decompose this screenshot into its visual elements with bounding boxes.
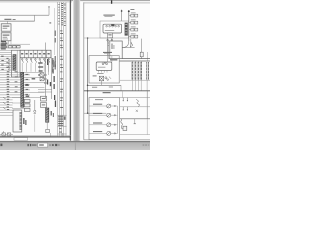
terminal block: [24, 99, 30, 102]
wire: [0, 84, 30, 86]
wire label: [7, 95, 10, 98]
wire: [0, 134, 13, 136]
wire: [0, 86, 45, 88]
wire: [89, 124, 107, 126]
label text: [55, 31, 56, 37]
component U1: [103, 24, 122, 33]
lamp: [107, 113, 111, 117]
wire: [0, 104, 13, 106]
wire: [57, 2, 59, 136]
switch: [40, 60, 41, 63]
table text: [60, 29, 62, 32]
wire: [108, 45, 112, 47]
wire: [120, 97, 150, 99]
relay K5: [40, 73, 44, 76]
wire: [0, 136, 71, 138]
label text: [47, 59, 48, 65]
table text: [64, 3, 66, 6]
contact: [8, 66, 10, 68]
table text: [58, 120, 63, 123]
bus wire: [84, 90, 150, 92]
wire: [5, 41, 7, 44]
contact: [26, 59, 28, 61]
table text: [60, 96, 63, 99]
toolbar edge: [0, 141, 150, 143]
label text: [32, 78, 36, 79]
toolbar band: [0, 142, 150, 150]
lamp box: [89, 56, 119, 83]
switch: [35, 60, 36, 63]
table text: [60, 55, 62, 58]
wire: [34, 115, 36, 132]
table text: [61, 4, 63, 7]
wire: [0, 109, 13, 111]
label text: [25, 85, 29, 86]
connector bar: [138, 62, 140, 80]
wire: [98, 70, 100, 72]
pane divider: [75, 142, 76, 150]
contact: [45, 82, 47, 84]
wire: [88, 84, 121, 86]
table text: [61, 17, 63, 20]
wire: [0, 101, 13, 103]
node: [109, 42, 110, 43]
wire: [12, 96, 30, 98]
wire label: [7, 75, 10, 78]
wire: [141, 39, 143, 53]
table text: [64, 7, 66, 10]
table text: [60, 106, 63, 109]
flex wire symbol: [136, 99, 140, 106]
lamp: [107, 123, 111, 127]
stub: [126, 107, 128, 110]
label text: [39, 53, 41, 54]
contact: [45, 78, 47, 80]
node mark: [111, 0, 113, 4]
label text: [50, 82, 51, 86]
wire: [58, 133, 67, 135]
label text: [93, 104, 102, 105]
bus wire: [122, 58, 150, 60]
fuse block: [9, 45, 12, 48]
page gutter shadow: [73, 0, 80, 142]
wire: [48, 58, 50, 75]
wire label: [15, 75, 18, 78]
wire: [58, 114, 67, 116]
label text: [38, 62, 42, 63]
label text: [92, 86, 97, 89]
switch: [31, 60, 32, 63]
wire: [3, 131, 5, 136]
table text: [59, 131, 62, 134]
contact: [34, 110, 36, 112]
switch S1: [131, 42, 133, 46]
wire: [130, 39, 132, 48]
label text: [55, 101, 56, 108]
wire: [122, 47, 134, 49]
wire: [89, 134, 150, 136]
connector bar: [146, 62, 147, 80]
wire label: [7, 88, 9, 91]
component: [7, 133, 10, 136]
label text: [38, 74, 43, 75]
bus wire: [120, 118, 150, 120]
wire: [84, 112, 107, 114]
terminal: [106, 63, 108, 65]
wire: [2, 41, 4, 44]
wire label: [15, 85, 18, 88]
table text: [58, 122, 63, 125]
table text: [60, 32, 63, 35]
wire: [0, 49, 12, 51]
wire: [12, 102, 30, 104]
wire: [38, 89, 52, 91]
wire: [51, 58, 53, 99]
table text: [60, 58, 63, 61]
terminal: [111, 39, 113, 41]
toolbar icons: [0, 144, 2, 147]
terminal: [112, 25, 114, 27]
page input box: [38, 143, 48, 147]
connector bar: [140, 62, 142, 80]
wire: [0, 60, 13, 62]
ground: [34, 112, 36, 114]
fuse F: [135, 14, 138, 17]
wire: [38, 91, 52, 93]
wire: [129, 29, 131, 31]
label text: [52, 58, 53, 65]
label text: [43, 53, 45, 54]
wire: [131, 61, 133, 62]
wire label: [15, 90, 18, 93]
wire: [0, 62, 13, 64]
table text: [60, 44, 62, 47]
wire: [0, 94, 30, 96]
label text: [103, 92, 111, 93]
resistor R1: [140, 52, 143, 57]
table text: [64, 116, 66, 119]
label text: [39, 70, 43, 71]
relay panel: [20, 50, 51, 58]
wire: [0, 71, 45, 73]
wire: [45, 43, 47, 100]
table text: [60, 37, 62, 40]
wire: [107, 38, 109, 56]
relay K1: [1, 24, 11, 31]
wire: [45, 50, 47, 58]
stub: [126, 98, 128, 101]
label text: [51, 111, 52, 116]
wire: [108, 42, 112, 44]
component box: [41, 96, 47, 101]
table text: [64, 9, 65, 12]
wire: [28, 50, 30, 58]
label text: [93, 123, 102, 124]
label text: [52, 60, 53, 67]
table text: [61, 13, 63, 16]
label text: [26, 96, 30, 97]
wire: [137, 80, 139, 91]
connector J1: [13, 55, 16, 71]
label text: [98, 66, 105, 69]
wire: [120, 106, 150, 108]
wire: [100, 81, 102, 86]
wire label: [6, 61, 8, 64]
wire: [30, 63, 32, 72]
table text: [58, 118, 63, 121]
wire label: [1, 64, 3, 67]
terminal: [118, 25, 120, 27]
table text: [64, 24, 66, 27]
pin: [109, 52, 111, 54]
wire label: [25, 93, 28, 96]
wire: [0, 56, 13, 58]
table text: [60, 77, 63, 80]
table text: [61, 15, 63, 18]
wire: [120, 85, 122, 91]
connector bar: [132, 62, 134, 80]
wire: [12, 108, 30, 110]
wire: [134, 119, 136, 124]
wire: [137, 61, 139, 62]
wire: [0, 51, 12, 53]
component box: [41, 103, 47, 108]
wire: [0, 76, 45, 78]
relay K3: [99, 76, 103, 81]
wire: [0, 96, 45, 98]
wire label: [7, 70, 10, 73]
wire label: [26, 88, 29, 91]
contact: [45, 74, 47, 76]
connector J4: [125, 23, 128, 36]
wire label: [6, 66, 8, 69]
wire: [134, 80, 136, 91]
wire: [103, 70, 105, 72]
node B: [128, 10, 130, 12]
table text: [64, 11, 66, 14]
wire: [63, 2, 65, 136]
contact: [107, 79, 109, 81]
pin: [109, 48, 111, 50]
pin: [109, 54, 111, 56]
wire: [0, 107, 13, 109]
wire: [0, 135, 71, 137]
wire: [26, 63, 28, 72]
label text: [103, 15, 114, 16]
label text: [1, 46, 8, 47]
wire: [41, 50, 43, 58]
wire: [129, 36, 131, 38]
wire: [7, 21, 9, 24]
wire: [89, 105, 107, 107]
fuse F: [131, 14, 134, 17]
label text: [25, 120, 26, 125]
wire: [0, 79, 30, 81]
label text: [111, 44, 112, 50]
stub: [122, 98, 124, 101]
contact: [48, 59, 50, 61]
cross mark: [136, 110, 138, 112]
terminal block: [24, 108, 30, 111]
label text: [52, 67, 53, 72]
wire: [0, 43, 30, 45]
wire: [0, 47, 20, 49]
label text: [26, 53, 28, 54]
wire: [10, 24, 12, 44]
label text: [48, 53, 50, 54]
contact: [43, 59, 45, 61]
title block: [14, 138, 28, 141]
label text: [131, 26, 136, 29]
wire: [59, 2, 61, 136]
pin: [109, 56, 111, 58]
fuse F: [131, 35, 134, 38]
wire: [0, 45, 20, 47]
label text: [110, 59, 117, 60]
wire: [146, 91, 148, 119]
junction box: [12, 50, 21, 77]
bus wire: [120, 60, 150, 62]
wire: [121, 10, 123, 21]
label text: [54, 62, 55, 68]
terminal: [114, 124, 115, 125]
label text: [34, 53, 36, 54]
table text: [58, 117, 63, 120]
wire label: [1, 68, 3, 71]
wire: [146, 119, 148, 135]
wire: [100, 70, 102, 72]
wire: [34, 15, 36, 21]
wire: [0, 54, 12, 56]
contact: [39, 59, 41, 61]
wire: [107, 56, 109, 62]
wire: [131, 80, 133, 91]
switch: [27, 60, 28, 63]
wire: [111, 56, 113, 62]
relay K6: [40, 78, 44, 81]
terminal: [106, 25, 108, 27]
wire: [134, 61, 136, 62]
wire label: [1, 59, 3, 62]
wire: [140, 80, 142, 91]
wire label: [7, 108, 9, 111]
lamp: [107, 104, 111, 108]
table text: [60, 99, 62, 102]
label text: [103, 52, 112, 53]
fuse F: [135, 21, 138, 24]
label text: [4, 19, 11, 20]
coil drop: [121, 119, 123, 129]
ground: [134, 123, 136, 125]
wire: [48, 7, 50, 15]
component: [107, 33, 112, 38]
terminal: [114, 115, 115, 116]
terminal: [114, 105, 115, 106]
wire: [0, 91, 45, 93]
wire: [0, 81, 45, 83]
junction box 2: [13, 110, 22, 132]
label text: [55, 38, 56, 43]
terminal block: [24, 104, 30, 107]
wire: [61, 2, 63, 136]
label text: [131, 12, 136, 15]
label text: [55, 65, 56, 70]
contact: [105, 77, 107, 79]
terminal: [109, 25, 111, 27]
contact: [8, 69, 10, 71]
wire: [84, 37, 109, 39]
wire: [140, 61, 142, 62]
label text: [131, 33, 136, 36]
wire label: [25, 73, 28, 76]
wire: [117, 106, 119, 133]
wire label: [1, 55, 3, 58]
contact: [35, 59, 37, 61]
wire label: [7, 85, 10, 88]
table text: [64, 20, 66, 23]
node A: [121, 10, 123, 12]
contact: [8, 63, 10, 65]
label text: [105, 29, 114, 32]
component U3: [96, 62, 112, 70]
label text: [109, 86, 113, 89]
fuse F: [131, 28, 134, 31]
wire: [111, 124, 118, 126]
component: [2, 133, 5, 136]
label text: [1, 41, 6, 42]
switch: [3, 102, 5, 104]
label text: [54, 95, 55, 100]
switch: [44, 60, 45, 63]
pin: [109, 44, 111, 46]
wire: [46, 122, 48, 129]
resistor R2: [123, 126, 127, 130]
wire: [0, 112, 13, 114]
table text: [64, 13, 65, 16]
label text: [111, 24, 114, 26]
node: [87, 37, 89, 39]
label text: [95, 98, 103, 101]
table text: [61, 6, 63, 9]
wire: [111, 105, 118, 107]
pin: [109, 50, 111, 52]
wire: [54, 8, 56, 55]
wire: [89, 114, 107, 116]
table text: [61, 23, 63, 26]
label text: [23, 118, 24, 124]
terminal: [102, 63, 104, 65]
switch: [109, 77, 111, 79]
wire label: [7, 103, 9, 106]
wire label: [7, 83, 9, 86]
wire: [0, 20, 35, 22]
wire: [65, 2, 67, 136]
wire: [106, 70, 108, 72]
contact: [30, 59, 32, 61]
table text: [60, 39, 63, 42]
wire: [0, 114, 13, 116]
wire: [111, 132, 118, 134]
label text: [30, 53, 32, 54]
switch: [22, 60, 23, 63]
wire label: [7, 78, 9, 81]
label text: [97, 72, 103, 75]
wire label: [7, 98, 9, 101]
table text: [60, 80, 62, 83]
fuse block: [17, 45, 20, 48]
diode box: [89, 98, 120, 140]
node: [87, 85, 89, 87]
